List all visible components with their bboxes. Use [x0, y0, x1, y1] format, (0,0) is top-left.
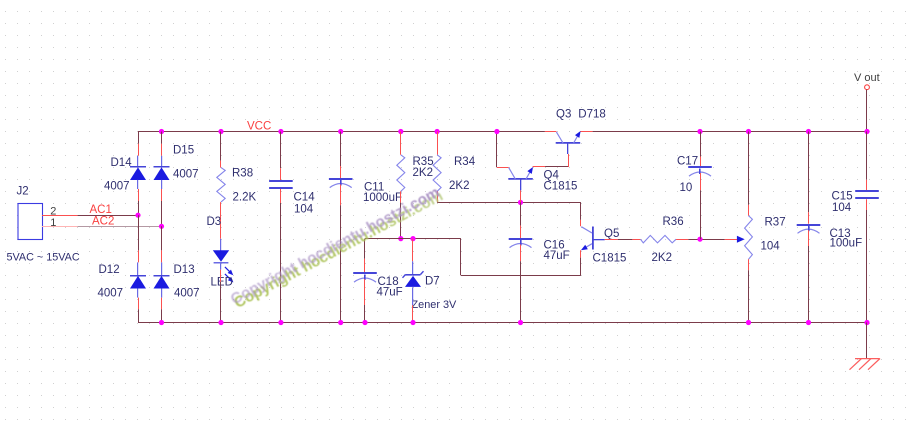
capacitor C15 — [855, 191, 879, 198]
value label 104 (C14) — [294, 203, 314, 215]
zener diode D7 — [403, 271, 424, 287]
wire C11 top lead — [340, 132, 342, 179]
wire C13 top lead — [808, 132, 810, 224]
wire zener net corner — [460, 239, 462, 276]
label Q5 — [604, 228, 619, 240]
label D12 — [99, 264, 120, 276]
svg-text:D12: D12 — [99, 264, 120, 276]
diode D15 — [154, 167, 170, 180]
junction C13 top — [806, 129, 811, 134]
wire R38 to D3 — [220, 202, 222, 250]
junction C14 top — [278, 129, 283, 134]
junction D13 bottom — [159, 320, 164, 325]
wire AC1 — [42, 215, 138, 217]
wire D7 bottom lead — [412, 287, 414, 322]
junction R35 top — [398, 129, 403, 134]
svg-text:VCC: VCC — [247, 120, 271, 132]
svg-text:2K2: 2K2 — [652, 252, 672, 264]
svg-text:D15: D15 — [173, 144, 194, 156]
capacitor C16 — [509, 239, 533, 248]
wire C15 bottom lead — [866, 199, 868, 322]
junction D7 top — [410, 236, 415, 241]
svg-text:R37: R37 — [765, 217, 786, 229]
label C15 — [832, 190, 853, 202]
capacitor C17 — [688, 167, 712, 176]
wire D7 top lead — [412, 239, 414, 275]
wire D14 top lead — [137, 132, 140, 167]
wire C15 top lead — [866, 132, 868, 191]
wire node A (y=202) — [437, 202, 581, 204]
wire C13 bottom lead — [808, 230, 810, 322]
svg-text:10: 10 — [680, 182, 693, 194]
junction V out node — [864, 129, 869, 134]
value label 104 (R37) — [761, 240, 781, 252]
label Q4 — [544, 169, 560, 181]
wire C14 top lead — [280, 132, 282, 181]
junction C16 bottom — [518, 320, 523, 325]
svg-text:47uF: 47uF — [544, 250, 570, 262]
junction C11 bottom — [338, 320, 343, 325]
junction D3 bottom — [218, 320, 223, 325]
junction C14 bottom — [278, 320, 283, 325]
junction R37 bottom — [746, 320, 751, 325]
wire C18 top lead — [364, 239, 366, 273]
wire C16 top lead — [520, 202, 522, 238]
wire zener net bottom (y=275.2) — [461, 275, 581, 277]
svg-text:AC1: AC1 — [90, 204, 112, 216]
net label AC2 — [92, 215, 114, 227]
diode D12 — [130, 276, 146, 289]
resistor R36 — [640, 235, 676, 243]
wire C17 bottom lead — [700, 173, 702, 239]
wire D14 to AC1 node — [137, 180, 140, 215]
junction C17 bottom node — [697, 237, 702, 242]
svg-text:104: 104 — [294, 203, 314, 215]
junction R34 top — [435, 129, 440, 134]
svg-text:5VAC ~ 15VAC: 5VAC ~ 15VAC — [7, 251, 80, 263]
junction D7 bottom — [410, 320, 415, 325]
wire Q4 collector lead — [497, 132, 509, 168]
svg-text:Zener 3V: Zener 3V — [412, 299, 458, 311]
svg-text:4007: 4007 — [173, 168, 199, 180]
resistor R34 — [433, 155, 441, 192]
label C18 — [378, 276, 399, 288]
wire AC2 — [42, 226, 162, 228]
svg-text:D14: D14 — [111, 157, 133, 169]
svg-text:C15: C15 — [832, 190, 853, 202]
wire Q4 base lead — [520, 190, 522, 202]
svg-text:Q5: Q5 — [604, 228, 619, 240]
svg-text:D13: D13 — [174, 264, 195, 276]
wire D15 top lead — [161, 132, 163, 167]
wire C17 top lead — [700, 132, 702, 167]
svg-text:C1815: C1815 — [593, 252, 627, 264]
net label AC1 — [90, 204, 112, 216]
label D7 — [425, 276, 440, 288]
transistor Q3 — [556, 131, 581, 154]
potentiometer R37 — [745, 216, 753, 260]
wire AC2 node to D13 — [161, 226, 163, 275]
svg-text:100uF: 100uF — [830, 237, 863, 249]
label C17 — [677, 155, 698, 167]
svg-text:C1815: C1815 — [544, 181, 578, 193]
capacitor C13 — [797, 225, 821, 233]
value label C1815 (Q5) — [593, 252, 627, 264]
svg-text:LED: LED — [211, 276, 233, 288]
label R35 — [413, 156, 434, 168]
transistor Q5 — [581, 227, 605, 251]
value label 104 (C15) — [832, 202, 852, 214]
resistor R35 — [397, 155, 405, 192]
svg-text:104: 104 — [761, 240, 781, 252]
wire C18 bottom lead — [364, 279, 366, 323]
label C13 — [830, 228, 851, 240]
svg-text:1000uF: 1000uF — [363, 192, 402, 204]
junction R38 top — [218, 129, 223, 134]
connector J2 — [18, 204, 43, 240]
net label VCC — [247, 120, 271, 132]
junction node AC1 — [135, 213, 140, 218]
value label Zener 3V — [412, 299, 458, 311]
wire D12 bottom lead — [137, 288, 140, 322]
capacitor C14 — [269, 181, 293, 188]
capacitor C18 — [353, 273, 377, 282]
value label 5VAC ~ 15VAC — [7, 251, 80, 263]
label LED — [211, 276, 233, 288]
junction D15 top — [159, 129, 164, 134]
wire Q4 emitter to Q3 base — [533, 154, 569, 167]
wire R37 top lead — [748, 132, 750, 216]
capacitor C11 — [329, 179, 353, 188]
junction Q4 collector top — [494, 129, 499, 134]
value label 2K2 (R36) — [652, 252, 672, 264]
label C16 — [544, 240, 565, 252]
svg-text:2.2K: 2.2K — [233, 191, 257, 203]
wire ground rail (bottom) — [138, 322, 867, 324]
wire C14 bottom lead — [280, 189, 282, 323]
LED D3 — [213, 250, 234, 282]
wire to ground — [866, 323, 868, 359]
svg-text:D7: D7 — [425, 276, 440, 288]
label J2 — [17, 186, 29, 198]
wire VCC rail — [138, 131, 867, 133]
label D14 — [111, 157, 133, 169]
value label 2.2K — [233, 191, 257, 203]
label R37 — [765, 217, 786, 229]
svg-text:Q3: Q3 — [556, 108, 571, 120]
wire Q5 emitter lead — [580, 250, 582, 275]
svg-text:AC2: AC2 — [92, 215, 114, 227]
label R36 — [663, 216, 684, 228]
svg-text:104: 104 — [832, 202, 852, 214]
svg-text:D718: D718 — [578, 108, 606, 120]
svg-text:4007: 4007 — [174, 288, 200, 300]
value label D718 — [578, 108, 606, 120]
label C11 — [364, 181, 384, 193]
wire R34 top lead — [437, 132, 439, 155]
junction node AC2 — [159, 224, 164, 229]
ground symbol — [850, 359, 881, 370]
label C14 — [294, 191, 316, 203]
svg-text:4007: 4007 — [98, 288, 124, 300]
value label 47uF (C18) — [377, 286, 403, 298]
svg-text:4007: 4007 — [104, 180, 130, 192]
value label 100uF — [830, 237, 863, 249]
wire R36 to R37 wiper — [676, 239, 737, 241]
svg-text:C17: C17 — [677, 155, 698, 167]
diode D13 — [154, 276, 170, 289]
pin 1 of J2 — [50, 217, 56, 229]
svg-text:Q4: Q4 — [544, 169, 560, 181]
wire D3 bottom lead — [220, 263, 222, 322]
junction R35 to zener net — [398, 236, 403, 241]
svg-text:R36: R36 — [663, 216, 684, 228]
value label C1815 (Q4) — [544, 181, 578, 193]
svg-text:2K2: 2K2 — [413, 167, 433, 179]
wire V out to VCC rail — [866, 90, 868, 132]
wire D15 to AC2 node — [161, 180, 163, 226]
svg-text:C14: C14 — [294, 191, 316, 203]
junction Q4 base node — [518, 200, 523, 205]
pin 2 of J2 — [50, 205, 56, 217]
label D13 — [174, 264, 195, 276]
svg-text:R38: R38 — [232, 167, 253, 179]
label R34 — [454, 156, 476, 168]
wire C11 bottom lead — [340, 185, 342, 323]
value label 4007 (D13) — [174, 288, 200, 300]
label D3 — [207, 216, 222, 228]
value label 4007 (D15) — [173, 168, 199, 180]
label V out — [854, 72, 880, 84]
label D15 — [173, 144, 194, 156]
label Q3 — [556, 108, 571, 120]
svg-text:47uF: 47uF — [377, 286, 403, 298]
transistor Q4 — [508, 167, 533, 190]
wire AC1 node to D12 — [137, 215, 140, 275]
diode D14 — [130, 167, 146, 180]
svg-text:2K2: 2K2 — [449, 180, 469, 192]
R37 wiper arrow — [737, 236, 745, 243]
value label 4007 (D14) — [104, 180, 130, 192]
wire R35 top lead — [400, 132, 402, 155]
svg-text:R34: R34 — [454, 156, 476, 168]
junction C18 bottom — [362, 320, 367, 325]
svg-text:1: 1 — [50, 217, 56, 229]
wire R35 bottom lead — [400, 191, 402, 238]
wire Q5 collector lead — [580, 202, 582, 226]
wire R38 top lead — [220, 132, 222, 168]
wire D13 bottom lead — [161, 288, 163, 322]
value label 2K2 (R34) — [449, 180, 469, 192]
label R38 — [232, 167, 253, 179]
junction C17 top — [697, 129, 702, 134]
value label 1000uF — [363, 192, 402, 204]
wire C16 bottom lead — [520, 245, 522, 323]
resistor R38 — [217, 168, 225, 203]
value label 4007 (D12) — [98, 288, 124, 300]
terminal V out — [865, 85, 870, 90]
value label 10 — [680, 182, 693, 194]
svg-text:J2: J2 — [17, 186, 29, 198]
svg-text:D3: D3 — [207, 216, 222, 228]
junction ground node — [864, 320, 869, 325]
wire R34 bottom lead — [437, 191, 439, 202]
wire Q5 base to R36 — [605, 239, 641, 241]
junction R37 top — [746, 129, 751, 134]
wire zener net (y=238.6) — [365, 238, 461, 240]
value label 47uF (C16) — [544, 250, 570, 262]
value label 2K2 (R35) — [413, 167, 433, 179]
junction C13 bottom — [806, 320, 811, 325]
svg-text:V out: V out — [854, 72, 880, 84]
wire R37 bottom lead — [748, 259, 750, 322]
junction C11 top — [338, 129, 343, 134]
